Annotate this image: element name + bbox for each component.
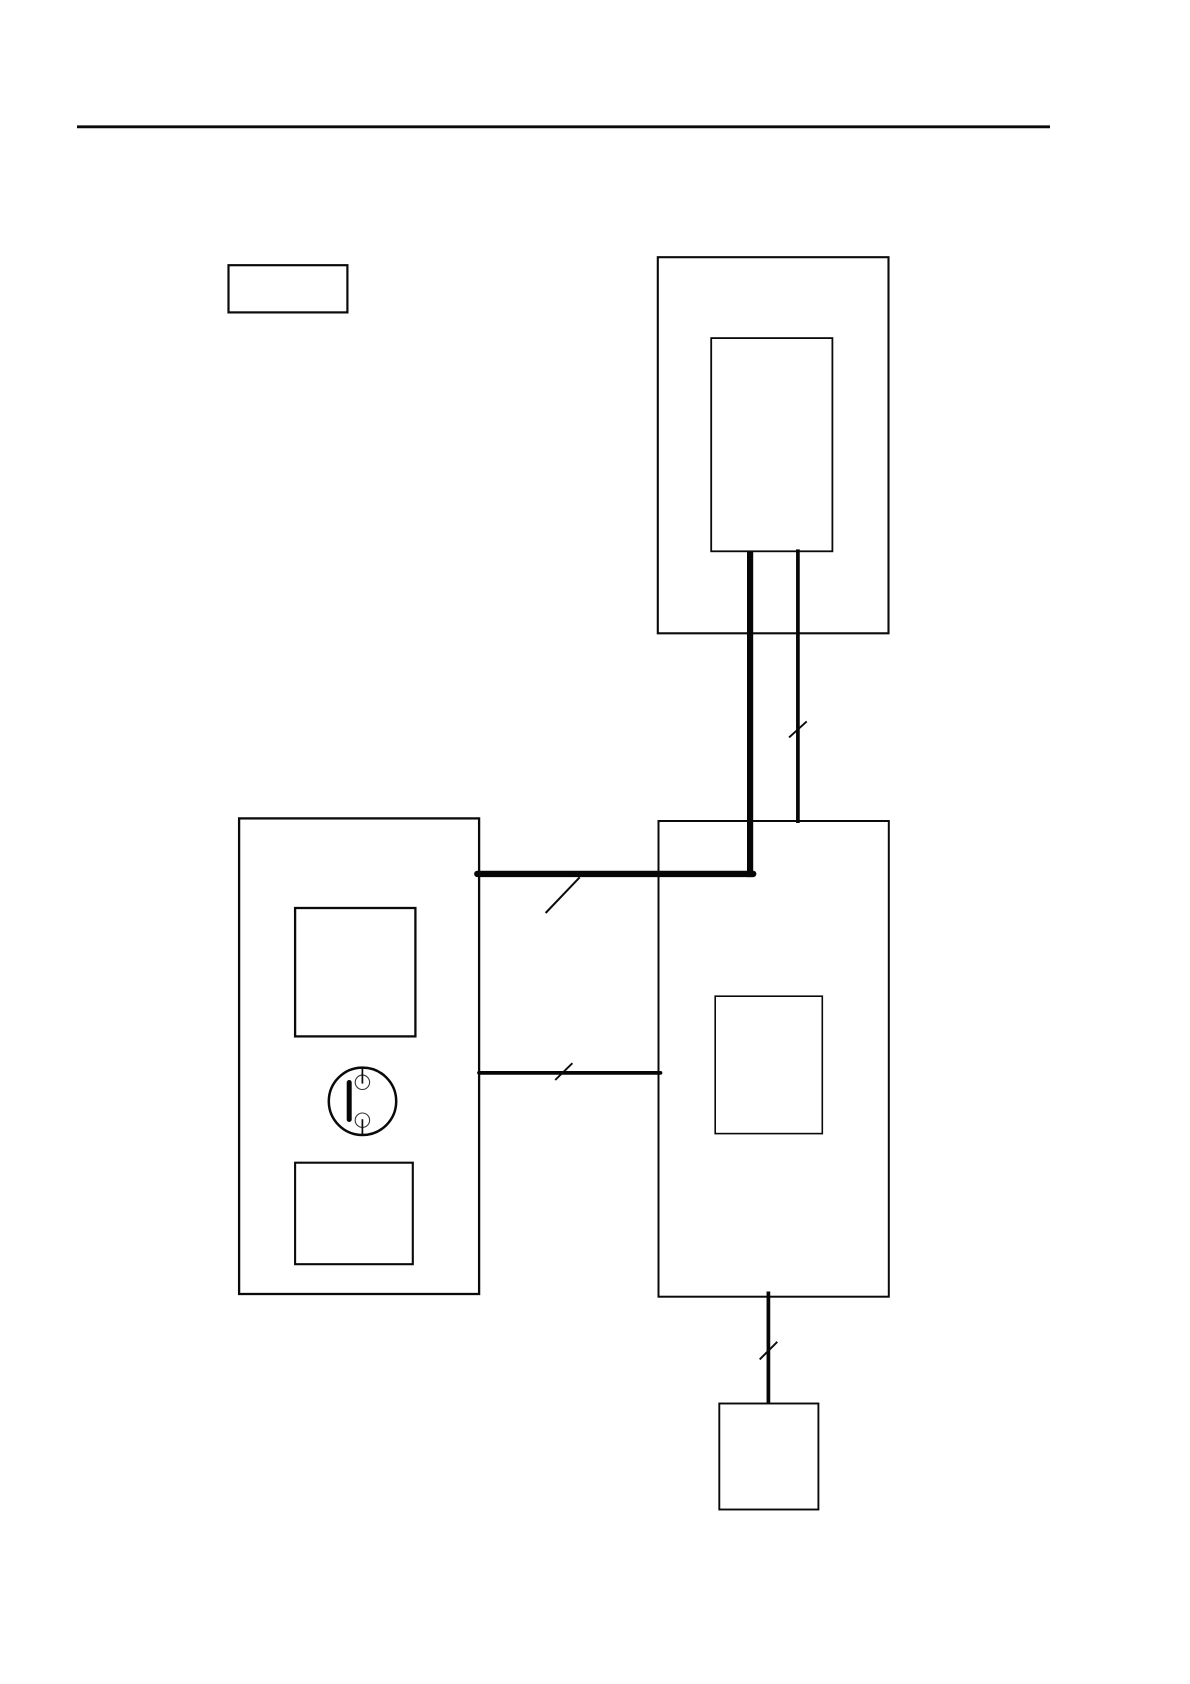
control panel box	[239, 818, 479, 1294]
wire W2 (signal)	[796, 549, 800, 823]
bundle slash S4	[760, 1342, 778, 1360]
monitor unit outer box	[658, 257, 889, 633]
connector J1 pin 2	[355, 1113, 369, 1127]
header rule	[77, 125, 1050, 128]
bundle slash S1	[546, 877, 580, 913]
wire W1 horizontal (thick bundle)	[477, 871, 753, 877]
wire W3 (panel link)	[479, 1071, 661, 1075]
connector J1 pin 1	[355, 1075, 369, 1089]
sensor box	[719, 1404, 818, 1510]
main unit inner board	[715, 996, 822, 1133]
connector J1 pin 1 lead	[361, 1068, 363, 1084]
display window	[295, 908, 415, 1036]
bundle slash S2	[789, 721, 807, 737]
connector J1 key bar	[347, 1083, 352, 1120]
title block box	[229, 265, 348, 312]
monitor unit inner board	[711, 338, 832, 551]
wire W1 vertical (thick bundle)	[747, 552, 753, 878]
wire W4 (sensor link)	[767, 1292, 771, 1405]
keypad window	[295, 1163, 413, 1265]
bundle slash S3	[555, 1063, 572, 1080]
main unit box	[659, 821, 889, 1297]
connector J1 pin 2 lead	[361, 1119, 363, 1135]
connector J1 shell	[329, 1068, 396, 1135]
